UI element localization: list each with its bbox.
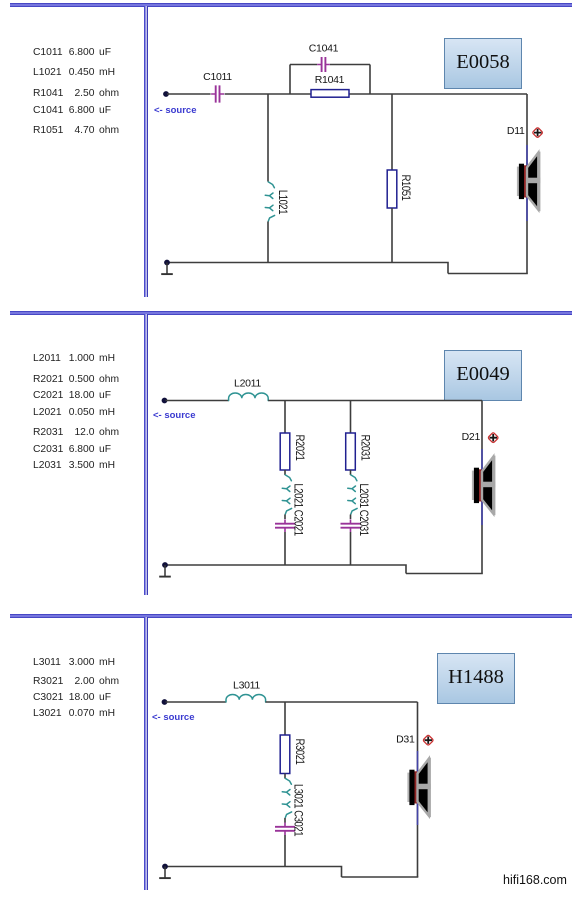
svg-text:L1021: L1021 — [276, 190, 289, 215]
svg-text:L2021 C2021: L2021 C2021 — [291, 483, 304, 536]
svg-text:D31: D31 — [396, 734, 415, 746]
svg-text:L2031 C2031: L2031 C2031 — [357, 483, 370, 536]
svg-text:C1011: C1011 — [203, 71, 232, 83]
svg-text:L2011: L2011 — [234, 378, 261, 390]
svg-text:R1041: R1041 — [315, 74, 345, 86]
svg-text:L3021 C3021: L3021 C3021 — [291, 784, 304, 837]
svg-text:D21: D21 — [462, 431, 481, 443]
svg-text:R3021: R3021 — [293, 739, 306, 765]
svg-text:R1051: R1051 — [399, 175, 412, 201]
svg-text:R2031: R2031 — [358, 435, 371, 461]
svg-text:C1041: C1041 — [309, 43, 339, 55]
svg-text:R2021: R2021 — [293, 435, 306, 461]
svg-text:D11: D11 — [507, 125, 525, 137]
svg-text:L3011: L3011 — [233, 680, 260, 692]
